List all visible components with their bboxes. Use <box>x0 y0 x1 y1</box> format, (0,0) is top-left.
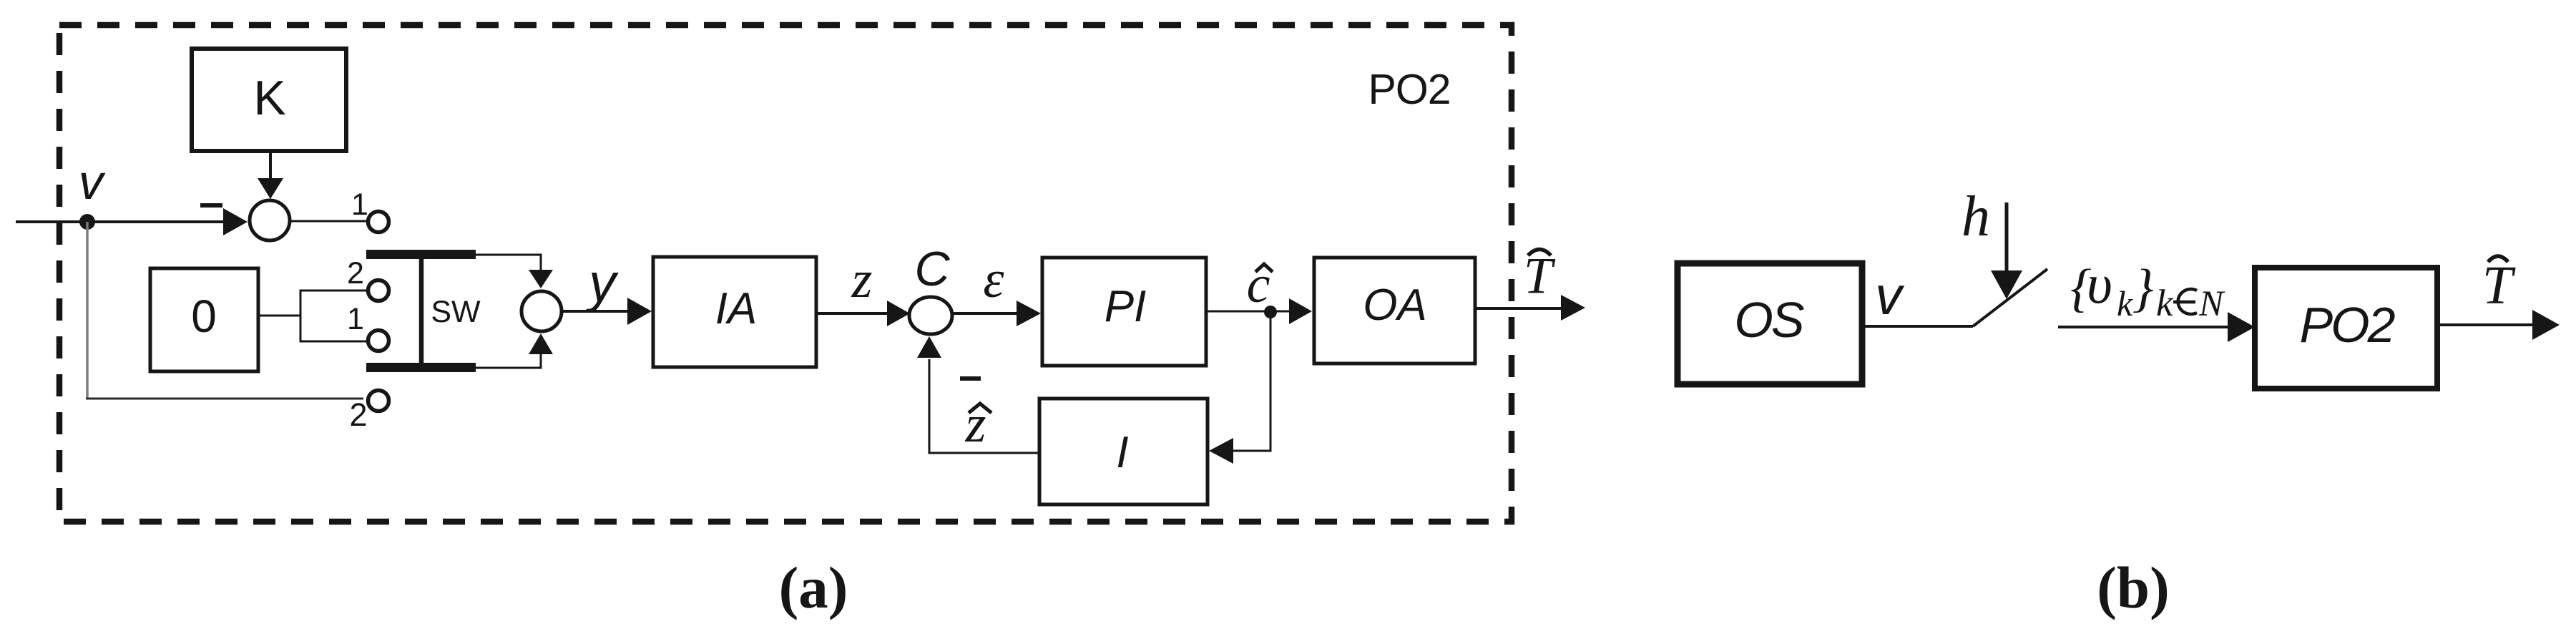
svg-text:N: N <box>2198 284 2225 324</box>
svg-text:h: h <box>1962 185 1990 248</box>
svg-text:PI: PI <box>1105 282 1147 331</box>
svg-text:I: I <box>1116 428 1128 477</box>
switch contact terminal 2 (middle) <box>368 281 389 301</box>
switch SW stem <box>419 254 424 368</box>
svg-text:2: 2 <box>347 256 364 291</box>
arrowhead h down <box>1991 270 2022 299</box>
svg-text:}: } <box>2132 259 2154 318</box>
svg-text:ε: ε <box>983 250 1004 309</box>
node c-hat (junction dot) <box>1264 306 1277 318</box>
svg-text:v: v <box>1875 265 1905 326</box>
arrowhead down into S2 <box>529 270 553 288</box>
block OA <box>1314 258 1475 364</box>
wire PI to node c <box>1206 311 1270 313</box>
arrowhead up into S2 <box>529 333 553 354</box>
output wire T-hat (b) <box>2437 323 2532 326</box>
block K <box>192 49 346 151</box>
wire 0 to contact bracket <box>258 315 300 317</box>
arrowhead into S1 <box>223 208 248 235</box>
wire bottom bar to S2 <box>476 352 541 368</box>
svg-text:PO2: PO2 <box>1368 66 1450 113</box>
block PO2 (b) <box>2255 268 2437 389</box>
dashed boundary of PO2 subsystem (a) <box>59 25 1512 522</box>
wire top bar to S2 <box>476 255 541 270</box>
svg-text:OA: OA <box>1363 281 1427 330</box>
svg-text:k: k <box>2156 283 2174 324</box>
sampler switch blade <box>1973 269 2047 326</box>
svg-text:(a): (a) <box>779 555 848 620</box>
label {v_k} k in N <box>2070 253 2225 324</box>
svg-text:C: C <box>914 242 950 296</box>
sampling command h wire <box>2005 203 2009 272</box>
svg-text:(b): (b) <box>2097 555 2169 620</box>
svg-text:k: k <box>2117 283 2133 323</box>
wire K to summing junction S1 <box>269 151 272 180</box>
svg-text:υ: υ <box>2087 253 2112 315</box>
switch SW top bar <box>366 250 476 259</box>
svg-text:SW: SW <box>431 295 481 329</box>
svg-text:K: K <box>253 71 285 125</box>
bracket joining contacts 2 and 1 <box>300 291 366 341</box>
label c-hat <box>1247 255 1273 314</box>
wire OS output v <box>1862 325 1973 328</box>
svg-text:y: y <box>585 253 619 313</box>
switch contact terminal 1 (top) <box>368 212 389 233</box>
svg-text:1: 1 <box>347 302 364 336</box>
wire node c to OA <box>1270 311 1292 313</box>
block OS <box>1678 263 1862 384</box>
arrowhead up into C <box>917 336 941 358</box>
switch SW bottom bar <box>366 363 476 372</box>
minus sign at S1 <box>200 203 222 208</box>
svg-text:0: 0 <box>191 291 217 342</box>
svg-text:OS: OS <box>1734 292 1803 348</box>
arrowhead into PO2 (b) <box>2228 312 2255 342</box>
wire S1 to contact 1 (top) <box>290 220 366 223</box>
arrowhead into OA <box>1289 298 1312 324</box>
arrowhead down into S1 <box>258 178 283 199</box>
label T-hat (b) <box>2482 255 2516 316</box>
svg-text:IA: IA <box>715 284 758 333</box>
node v (junction dot) <box>79 214 95 230</box>
summing junction S1 <box>250 200 290 240</box>
svg-text:1: 1 <box>351 187 368 222</box>
switch contact terminal 1 (middle) <box>368 331 389 351</box>
svg-text:T: T <box>2482 255 2516 316</box>
wire S2 to IA <box>562 310 627 313</box>
arrowhead into IA <box>627 298 652 325</box>
wire I to C (feedback) <box>929 359 1039 453</box>
arrowhead into C <box>887 301 910 326</box>
comparison junction C <box>909 297 952 334</box>
label z-hat <box>965 395 991 454</box>
arrowhead into PI <box>1017 301 1041 326</box>
input wire v <box>16 220 226 223</box>
sampled wire into PO2 <box>2058 326 2230 328</box>
svg-text:PO2: PO2 <box>2299 297 2394 353</box>
arrowhead left into I <box>1209 438 1233 464</box>
feedback wire from node c down to I <box>1233 312 1270 451</box>
output wire T-hat <box>1475 307 1562 310</box>
arrowhead output (b) <box>2532 310 2560 340</box>
block I <box>1039 399 1208 504</box>
summing junction S2 <box>521 291 562 331</box>
svg-text:v: v <box>79 155 106 210</box>
block 0 (zero source) <box>150 268 258 371</box>
wire IA to C <box>816 312 890 315</box>
wire C to PI <box>952 312 1019 315</box>
block PI <box>1042 258 1206 366</box>
svg-text:z: z <box>851 250 873 309</box>
gray feed wire from node v to switch contact 2 (bottom) <box>86 222 89 398</box>
block IA <box>653 257 816 367</box>
switch contact terminal 2 (bottom) <box>368 391 389 411</box>
minus sign at C <box>960 376 981 381</box>
arrowhead output (a) <box>1561 295 1585 321</box>
wire to contact 2 (bottom run) <box>86 398 363 400</box>
svg-text:2: 2 <box>349 396 367 433</box>
label T-hat (a) <box>1524 247 1556 304</box>
